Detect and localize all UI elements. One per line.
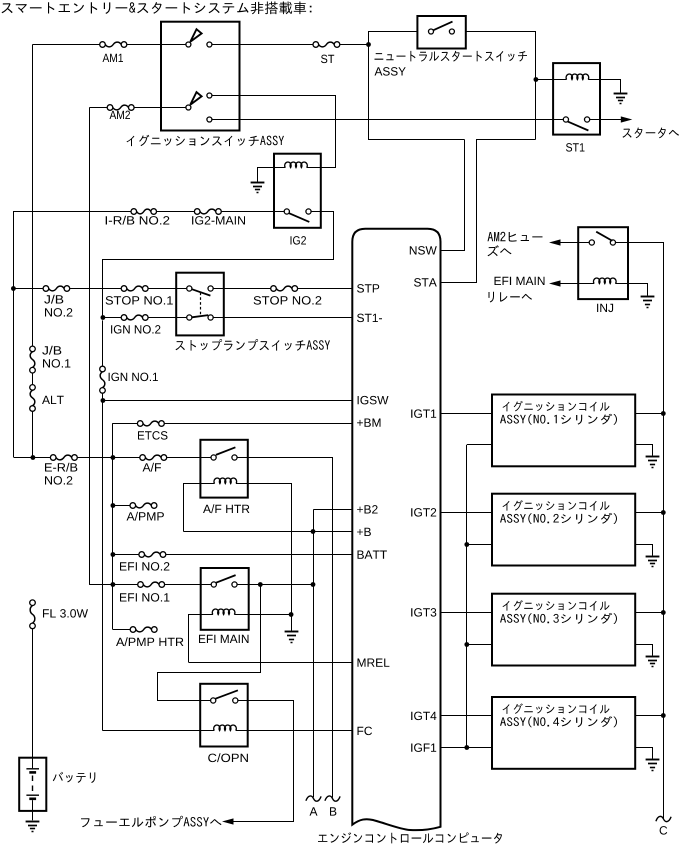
- wire coil NO.4 IGF: [467, 747, 492, 749]
- ground at IG2: [251, 182, 265, 184]
- wire STOP NO.2 to ECU STP: [298, 288, 353, 290]
- node IGF bus coil NO.4: [464, 745, 469, 750]
- label to AM2 fuse 2: [488, 245, 512, 256]
- wire EFI MAIN output: [237, 584, 313, 586]
- coil 4 line2: [500, 716, 617, 727]
- node ST1 coil junction: [534, 77, 539, 82]
- label engine control computer: [318, 832, 502, 843]
- node IGF bus coil NO.2: [464, 542, 469, 547]
- battery plates: [32, 758, 34, 769]
- wire IGT3 from ECU: [441, 612, 493, 614]
- wire IGSW to ECU: [103, 400, 352, 402]
- ECU pin label +B2: [357, 505, 378, 513]
- wire coil NO.4 ground lead: [636, 748, 653, 759]
- wire AM2 riser corner to EFI NO.1: [90, 584, 138, 586]
- wire EFI NO.2 to ECU BATT: [166, 554, 352, 556]
- ECU pin label NSW: [410, 246, 437, 255]
- wire ground bus down: [291, 614, 293, 630]
- wire EFI NO.2 feed: [113, 554, 139, 556]
- ECU pin label IGT2: [411, 508, 436, 516]
- node IGF bus coil NO.3: [464, 642, 469, 647]
- ECU pin label MREL: [358, 659, 390, 667]
- relay EFI MAIN switch: [211, 582, 216, 587]
- ECU pin label +BM: [357, 419, 380, 427]
- coil 4 line1: [503, 703, 610, 714]
- ignition switch U1 box: [161, 22, 240, 131]
- fuse A/PMP: [130, 503, 136, 509]
- label INJ: [597, 304, 613, 312]
- relay C/OPN coil: [200, 730, 214, 732]
- label stop lamp switch assy: [176, 339, 331, 351]
- wire stop switch to STOP NO.2: [213, 288, 270, 290]
- ECU pin label IGT1: [411, 409, 436, 418]
- wire EFI MAIN coil left to MREL: [189, 615, 201, 663]
- relay EFI MAIN box: [201, 568, 249, 630]
- wire MREL to ECU: [189, 662, 352, 664]
- wire I-R/B row from left riser: [14, 211, 131, 213]
- wire between links: [32, 373, 34, 385]
- ECU pin label STA: [414, 278, 437, 287]
- fusible link IGN NO.1: [100, 366, 106, 372]
- ECU pin label ST1-: [357, 314, 382, 323]
- wire NSW drop to ECU pin: [441, 140, 465, 251]
- wire A/F to A/F HTR relay: [167, 457, 211, 459]
- relay ST1 coil ground lead: [601, 80, 621, 93]
- title: [2, 2, 312, 15]
- wire EFI MAIN coil right to ground bus: [249, 614, 291, 616]
- wire IGN NO.2 to stop switch: [148, 317, 186, 319]
- wire node ST up to neutral start switch: [369, 32, 418, 45]
- left riser vertical I-R/B to E-R/B: [13, 211, 15, 457]
- wire AM2 feed: [90, 107, 108, 109]
- wire coil NO.1 IGF: [467, 444, 492, 446]
- wire AM1 feed from battery bus: [33, 44, 100, 46]
- ignition bus vertical AM2: [89, 107, 91, 585]
- node ST junction: [366, 42, 371, 47]
- wire ST1 output to starter: [590, 119, 622, 121]
- ground at battery: [26, 821, 40, 823]
- wire FL to battery: [32, 629, 34, 758]
- ignition switch SW2 contact IG2: [207, 93, 212, 98]
- neutral start switch contacts and arm: [429, 29, 434, 34]
- node +B at A riser: [311, 529, 316, 534]
- label battery: [53, 772, 96, 783]
- label ST1: [566, 143, 585, 152]
- node IGN NO.2: [101, 315, 106, 320]
- relay C/OPN switch: [211, 698, 216, 703]
- label EFI MAIN: [199, 635, 249, 643]
- ignition coil NO.4 box: [492, 697, 635, 769]
- ignition switch SW1 output wire to ST fuse: [212, 44, 313, 46]
- node A/PMP: [111, 503, 116, 508]
- relay ST1 coil: [553, 79, 567, 81]
- node IGSW: [101, 398, 106, 403]
- wire ST1 coil feed: [536, 79, 553, 81]
- wire IGT1 from ECU: [441, 413, 493, 415]
- fuse STOP NO.2: [271, 286, 277, 292]
- wire A/PMP feed: [113, 505, 130, 507]
- wire C/OPN output to fuel pump: [232, 701, 294, 822]
- fuse ST: [313, 42, 319, 48]
- fuse IGN NO.2: [121, 315, 127, 321]
- stop lamp switch link dashed: [200, 293, 202, 315]
- relay IG2 box: [274, 154, 321, 228]
- relay A/F HTR coil: [200, 483, 214, 485]
- relay INJ switch: [589, 240, 594, 245]
- wire IG2-MAIN to IG2 relay switch: [221, 211, 284, 213]
- relay IG2 coil ground lead: [258, 168, 275, 182]
- wire IGT4 from ECU: [441, 715, 493, 717]
- relay INJ box: [578, 227, 628, 299]
- label C/OPN: [208, 753, 248, 762]
- coil 3 line1: [503, 600, 610, 611]
- wire neutral switch output: [466, 32, 536, 140]
- wire EFI MAIN out down to C/OPN switch: [158, 585, 261, 701]
- wire stop switch lower to ECU ST1-: [213, 317, 352, 319]
- neutral start switch box: [417, 16, 465, 49]
- node battery bus at E-R/B: [31, 455, 36, 460]
- fuse IG2-MAIN: [194, 209, 200, 215]
- label A/F HTR: [203, 504, 249, 513]
- wire coil NO.3 IGF: [467, 644, 492, 646]
- fuse ETCS: [137, 421, 143, 427]
- node +B bus coil NO.3: [661, 610, 666, 615]
- wire AM1 to ignition switch: [127, 44, 186, 46]
- wire IG2 contact to IG2 relay coil: [212, 96, 336, 168]
- wire A/F HTR output to node B riser: [238, 458, 333, 798]
- relay ST1 switch: [563, 117, 568, 122]
- relay C/OPN box: [200, 684, 248, 747]
- wire EFI NO.1 to EFI MAIN relay: [165, 584, 212, 586]
- node +B bus coil NO.4: [661, 713, 666, 718]
- node +B bus coil NO.2: [661, 510, 666, 515]
- wire AM2 to ignition switch: [134, 107, 186, 109]
- stop lamp switch upper contacts: [187, 286, 192, 291]
- wire INJ coil ground lead: [629, 284, 648, 296]
- ECU pin label IGT4: [411, 712, 436, 721]
- fusible link FL 3.0W: [30, 600, 36, 606]
- wire IGT2 from ECU: [441, 512, 493, 514]
- ECU pin label IGSW: [358, 396, 389, 405]
- node +B bus coil NO.1: [661, 411, 666, 416]
- wire INJ switch to +B bus: [616, 243, 664, 819]
- wire IGF1 to ECU: [441, 747, 467, 749]
- wire ETCS to ECU +BM: [164, 423, 352, 425]
- ignition switch SW1 contacts: [186, 42, 191, 47]
- ignition coil NO.1 box: [492, 395, 635, 467]
- coil 3 line2: [500, 613, 617, 624]
- fuse EFI NO.1: [138, 582, 144, 588]
- IGF bus vertical: [466, 445, 468, 748]
- relay ST1 box: [553, 63, 600, 135]
- wire IG2 output to IGN NO.2 riser: [103, 212, 334, 318]
- node EFI NO.2: [111, 552, 116, 557]
- wire C/OPN coil right to ECU FC: [248, 730, 353, 732]
- break node B: [325, 796, 340, 801]
- wire ALT to E-R/B row: [32, 411, 34, 457]
- fuse A/PMP HTR: [130, 627, 136, 633]
- break node C: [656, 816, 671, 821]
- wire +B2 to ECU: [314, 509, 353, 511]
- riser to break A: [313, 509, 315, 797]
- wire C/OPN coil left from IGN riser: [103, 730, 200, 732]
- ECU pin label FC: [358, 727, 373, 736]
- fuse I-R/B NO.2: [131, 209, 137, 215]
- node EFI NO.1: [111, 582, 116, 587]
- ground at INJ: [641, 296, 655, 298]
- label to AM2 fuse: [488, 232, 543, 242]
- wire left riser corner to E-R/B fuse: [14, 457, 51, 459]
- label to EFI MAIN relay 2: [489, 292, 533, 303]
- node J/B NO.2: [11, 286, 16, 291]
- relay IG2 switch: [284, 209, 289, 214]
- ignition coil NO.3 box: [492, 594, 635, 666]
- wire between I-R/B and IG2-MAIN fuses: [157, 211, 195, 213]
- wire A/F HTR coil left to +B line: [184, 484, 201, 532]
- relay A/F HTR switch: [211, 455, 216, 460]
- fuse AM2: [107, 105, 113, 111]
- accessory bus vertical: [112, 423, 114, 629]
- wire STA route from ST1 coil node: [441, 140, 536, 283]
- wire coil NO.1 ground lead: [636, 445, 653, 456]
- stop lamp switch box: [176, 273, 224, 336]
- fuse AM1: [100, 42, 106, 48]
- fuse E-R/B NO.2: [50, 455, 56, 461]
- ground at coil NO.3: [646, 656, 660, 658]
- fuse STOP NO.1: [121, 286, 127, 292]
- node EFI MAIN output to C/OPN: [258, 582, 263, 587]
- ground at EFI MAIN: [285, 631, 299, 633]
- label IG2: [291, 236, 307, 245]
- wire ST1 contact to ST1 relay switch: [212, 119, 563, 121]
- wire ETCS feed from bus: [113, 423, 138, 425]
- wire A/F HTR coil right to relay ground bus: [248, 484, 292, 615]
- relay EFI MAIN coil: [201, 614, 213, 616]
- ECU pin label +B: [357, 528, 371, 536]
- coil 1 line2: [500, 414, 617, 425]
- wire coil NO.2 to +B bus: [635, 512, 663, 514]
- label to starter: [623, 128, 680, 139]
- wire A/PMP HTR feed from bus: [113, 629, 131, 631]
- break node A: [306, 796, 321, 801]
- ground at coil NO.2: [646, 556, 660, 558]
- wire IGN NO.1 to node: [102, 393, 104, 400]
- node EFI MAIN output at A riser: [311, 582, 316, 587]
- coil 2 line2: [500, 513, 617, 524]
- ignition switch SW2 common contact: [186, 105, 191, 110]
- coil 2 line1: [503, 500, 610, 511]
- fuse EFI NO.2: [139, 552, 145, 558]
- wire +B line to ECU: [184, 531, 353, 533]
- wire coil NO.3 ground lead: [636, 645, 653, 656]
- label neutral start switch: [375, 51, 528, 62]
- fusible link J/B NO.1: [30, 346, 36, 352]
- wire to J/B NO.2 fuse: [13, 288, 43, 290]
- ECU pin label STP: [357, 284, 379, 293]
- wire coil NO.2 ground lead: [636, 545, 653, 556]
- relay A/F HTR box: [200, 440, 247, 498]
- ground at coil NO.4: [646, 759, 660, 761]
- relay IG2 coil: [274, 167, 286, 169]
- node accessory bus at A/F row: [111, 455, 116, 460]
- wire coil NO.3 to +B bus: [635, 612, 663, 614]
- wire IGN NO.2 feed: [103, 317, 121, 319]
- wire STOP NO.1 to stop lamp switch: [148, 288, 186, 290]
- relay INJ coil: [560, 283, 595, 285]
- wire coil NO.4 to +B bus: [635, 715, 663, 717]
- ECU pin label BATT: [358, 551, 387, 559]
- label to fuel pump assy: [81, 816, 222, 828]
- wire ST fuse to node ST: [340, 44, 369, 46]
- ECU engine control computer outline: [352, 229, 440, 830]
- wire coil NO.2 IGF: [467, 544, 492, 546]
- battery bus vertical (left): [32, 45, 34, 347]
- ground at coil NO.1: [646, 456, 660, 458]
- node relay ground bus: [289, 612, 294, 617]
- label to EFI MAIN relay line1: [495, 277, 545, 285]
- ignition coil NO.2 box: [492, 494, 635, 566]
- label ignition switch assy: [127, 135, 285, 146]
- wire IGN riser down to C/OPN coil: [102, 400, 104, 731]
- wire INJ switch to AM2 fuse arrow: [560, 242, 590, 244]
- wire battery to ground: [32, 800, 34, 820]
- fuse A/F: [140, 455, 146, 461]
- fuse J/B NO.2: [43, 286, 49, 292]
- battery box: [19, 758, 46, 811]
- wire IGN NO.2 node down to IGN NO.1: [102, 320, 104, 366]
- ground at ST1: [614, 93, 628, 95]
- wire E-R/B to A/F fuse: [77, 457, 139, 459]
- ignition switch SW2 contact ST1: [207, 117, 212, 122]
- fusible link ALT: [30, 385, 36, 391]
- stop lamp switch lower contacts: [187, 315, 192, 320]
- ECU pin label IGT3: [411, 608, 436, 617]
- wire coil NO.1 to +B bus: [635, 413, 663, 415]
- coil 1 line1: [503, 401, 610, 412]
- wire node ST down to NSW route: [369, 45, 465, 140]
- wire J/B NO.2 to STOP NO.1: [70, 288, 121, 290]
- ECU pin label IGF1: [411, 743, 436, 752]
